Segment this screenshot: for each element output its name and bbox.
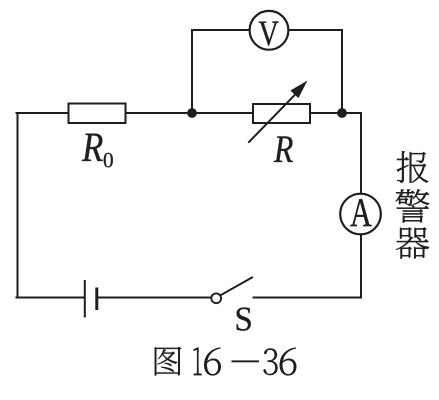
- wire: left vertical branch: [17, 113, 19, 298]
- label 报警器 (alarm): [396, 151, 430, 259]
- wire: switch to battery: [98, 297, 211, 299]
- ammeter A: [340, 194, 381, 235]
- wire: top-left to R0: [17, 112, 70, 114]
- wire: voltmeter branch left (node A up and right): [192, 30, 249, 113]
- wire: R0 to node A: [126, 112, 193, 114]
- switch S: [211, 278, 252, 304]
- variable resistor R (rect + arrow): [249, 81, 310, 143]
- wire: node A to R: [192, 112, 254, 114]
- battery cell: [85, 281, 97, 317]
- wire: voltmeter branch right (down to node B): [289, 30, 342, 113]
- label R0: [82, 134, 113, 168]
- node: left junction: [187, 108, 197, 118]
- caption 图 16-36: [155, 347, 296, 376]
- label R: [274, 136, 293, 162]
- node: right junction: [337, 108, 347, 118]
- wire: battery to bottom-left corner: [17, 297, 84, 299]
- resistor R0: [69, 104, 126, 124]
- wire: ammeter to bottom-right corner: [254, 234, 362, 297]
- wire: R to node B: [310, 112, 343, 114]
- label S: [237, 307, 251, 330]
- wire: node B to ammeter: [342, 113, 361, 194]
- voltmeter V: [250, 11, 289, 50]
